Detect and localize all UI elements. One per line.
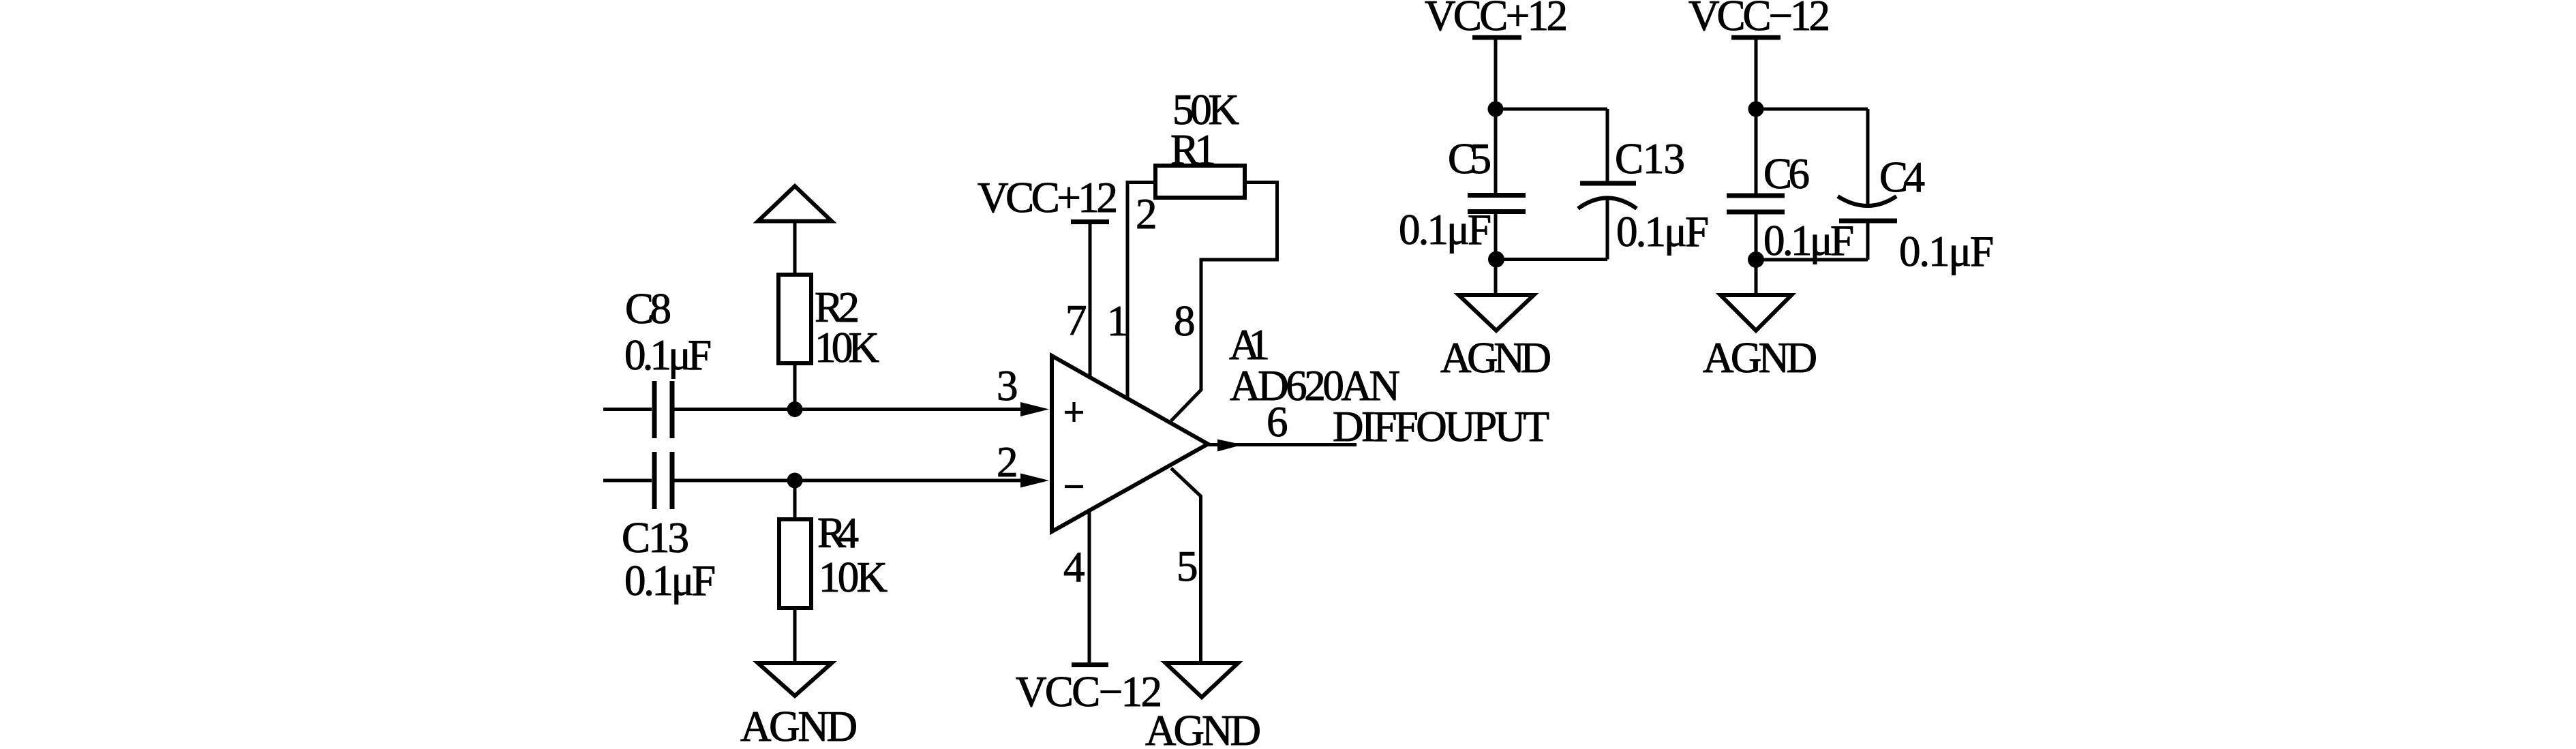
svg-text:AGND: AGND [1703, 334, 1817, 382]
svg-text:R1: R1 [1170, 126, 1216, 174]
svg-text:10K: 10K [819, 553, 888, 601]
svg-text:0.1μF: 0.1μF [624, 557, 716, 605]
svg-text:0.1μF: 0.1μF [1899, 228, 1994, 275]
svg-text:5: 5 [1177, 542, 1198, 590]
svg-text:8: 8 [1174, 297, 1196, 345]
svg-text:C5: C5 [1448, 135, 1491, 183]
svg-text:0.1μF: 0.1μF [1616, 208, 1709, 256]
svg-text:2: 2 [1136, 190, 1157, 238]
svg-text:C13: C13 [1615, 135, 1685, 183]
svg-text:VCC+12: VCC+12 [1425, 0, 1568, 40]
svg-text:C13: C13 [622, 514, 689, 562]
svg-text:VCC−12: VCC−12 [1016, 668, 1162, 716]
svg-text:10K: 10K [815, 324, 879, 371]
svg-text:2: 2 [997, 438, 1018, 486]
svg-text:VCC+12: VCC+12 [978, 174, 1118, 221]
svg-text:AGND: AGND [1145, 707, 1261, 749]
svg-text:AGND: AGND [740, 703, 858, 749]
svg-text:4: 4 [1063, 543, 1085, 591]
svg-text:R4: R4 [817, 509, 859, 557]
svg-text:0.1μF: 0.1μF [1763, 217, 1854, 264]
svg-text:0.1μF: 0.1μF [624, 331, 712, 379]
svg-text:C6: C6 [1763, 150, 1810, 198]
svg-text:VCC−12: VCC−12 [1688, 0, 1830, 40]
svg-text:C8: C8 [625, 285, 671, 333]
svg-text:7: 7 [1065, 296, 1087, 344]
svg-text:6: 6 [1267, 398, 1288, 446]
svg-text:0.1μF: 0.1μF [1399, 206, 1491, 254]
svg-text:1: 1 [1107, 297, 1129, 345]
svg-text:DIFFOUPUT: DIFFOUPUT [1333, 403, 1549, 450]
svg-text:3: 3 [997, 362, 1018, 410]
svg-text:AGND: AGND [1440, 334, 1551, 382]
svg-text:C4: C4 [1879, 153, 1925, 201]
